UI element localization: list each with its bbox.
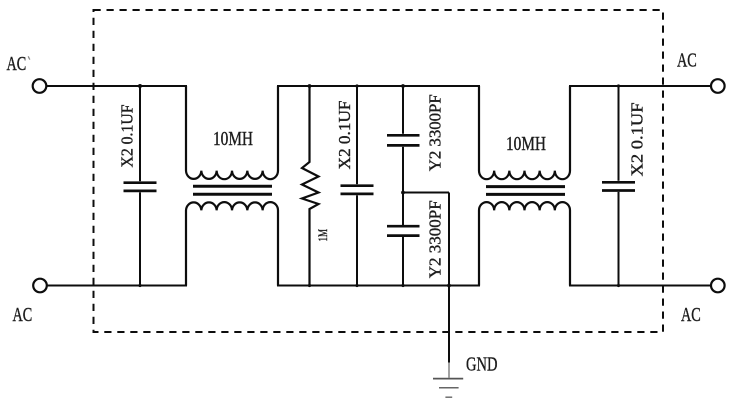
wire ground stem vertical xyxy=(448,193,450,363)
wire top line, left segment xyxy=(46,85,187,87)
junction left X-cap bottom xyxy=(138,284,141,287)
svg-text:AC: AC xyxy=(677,51,697,72)
wire top line, middle segment xyxy=(277,85,480,87)
junction Y-cap top xyxy=(401,84,405,88)
junction Y-cap midpoint node xyxy=(401,191,405,195)
wire bottom line, right segment xyxy=(569,285,711,287)
capacitor X2 0.1UF (right X-cap) xyxy=(602,86,635,286)
capacitor Y2 3300PF (top Y-cap) xyxy=(387,86,420,225)
inductor 10MH (right) core lines xyxy=(486,185,565,188)
inductor 10MH common-mode choke (left), top winding xyxy=(186,86,278,179)
inductor 10MH (right) bottom winding xyxy=(479,202,570,285)
capacitor X2 0.1UF (left X-cap) xyxy=(124,86,157,286)
wire bottom line, left segment xyxy=(47,285,187,287)
ground symbol GND xyxy=(433,379,463,398)
junction Y-cap bottom xyxy=(401,284,404,287)
svg-text:AC: AC xyxy=(13,305,33,326)
terminal circle AC top-left xyxy=(33,79,47,93)
svg-text:AC: AC xyxy=(7,54,27,75)
wire ground stem thin lower part xyxy=(448,363,450,378)
svg-text:X2 0.1UF: X2 0.1UF xyxy=(628,103,647,177)
wire top line, right segment xyxy=(569,85,711,87)
junction middle X-cap top xyxy=(355,84,358,87)
svg-text:10MH: 10MH xyxy=(506,133,546,155)
svg-text:AC: AC xyxy=(681,305,701,326)
label AC top-left xyxy=(7,54,30,75)
junction resistor top on line wire xyxy=(308,84,312,88)
wire bottom line, middle segment xyxy=(277,285,480,287)
inductor 10MH common-mode choke (right), top winding xyxy=(479,86,570,179)
junction right X-cap bottom xyxy=(617,284,620,287)
dashed enclosure border xyxy=(94,10,664,332)
junction right X-cap top xyxy=(617,84,620,87)
svg-text:X2 0.1UF: X2 0.1UF xyxy=(118,105,137,168)
junction ground stem crossing bottom wire xyxy=(447,284,451,288)
svg-text:X2 0.1UF: X2 0.1UF xyxy=(335,101,354,170)
svg-text:1M: 1M xyxy=(316,229,330,242)
svg-text:Y2 3300PF: Y2 3300PF xyxy=(426,94,445,171)
wire Y-cap midpoint to ground stem xyxy=(403,192,449,194)
capacitor X2 0.1UF (middle X-cap) xyxy=(341,86,374,286)
inductor 10MH (left) bottom winding xyxy=(186,202,278,285)
terminal circle AC top-right xyxy=(711,79,725,93)
inductor 10MH (left) core lines xyxy=(193,185,272,188)
terminal circle AC bottom-right xyxy=(711,279,725,293)
svg-text:GND: GND xyxy=(466,354,498,376)
junction resistor bottom xyxy=(308,284,311,287)
resistor 1M bleeder xyxy=(302,86,319,286)
capacitor Y2 3300PF (bottom Y-cap) xyxy=(387,226,420,285)
svg-text:10MH: 10MH xyxy=(213,128,253,150)
junction left X-cap top xyxy=(138,84,142,88)
terminal circle AC bottom-left xyxy=(33,279,47,293)
junction middle X-cap bottom xyxy=(355,284,358,287)
svg-text:Y2 3300PF: Y2 3300PF xyxy=(426,200,445,278)
